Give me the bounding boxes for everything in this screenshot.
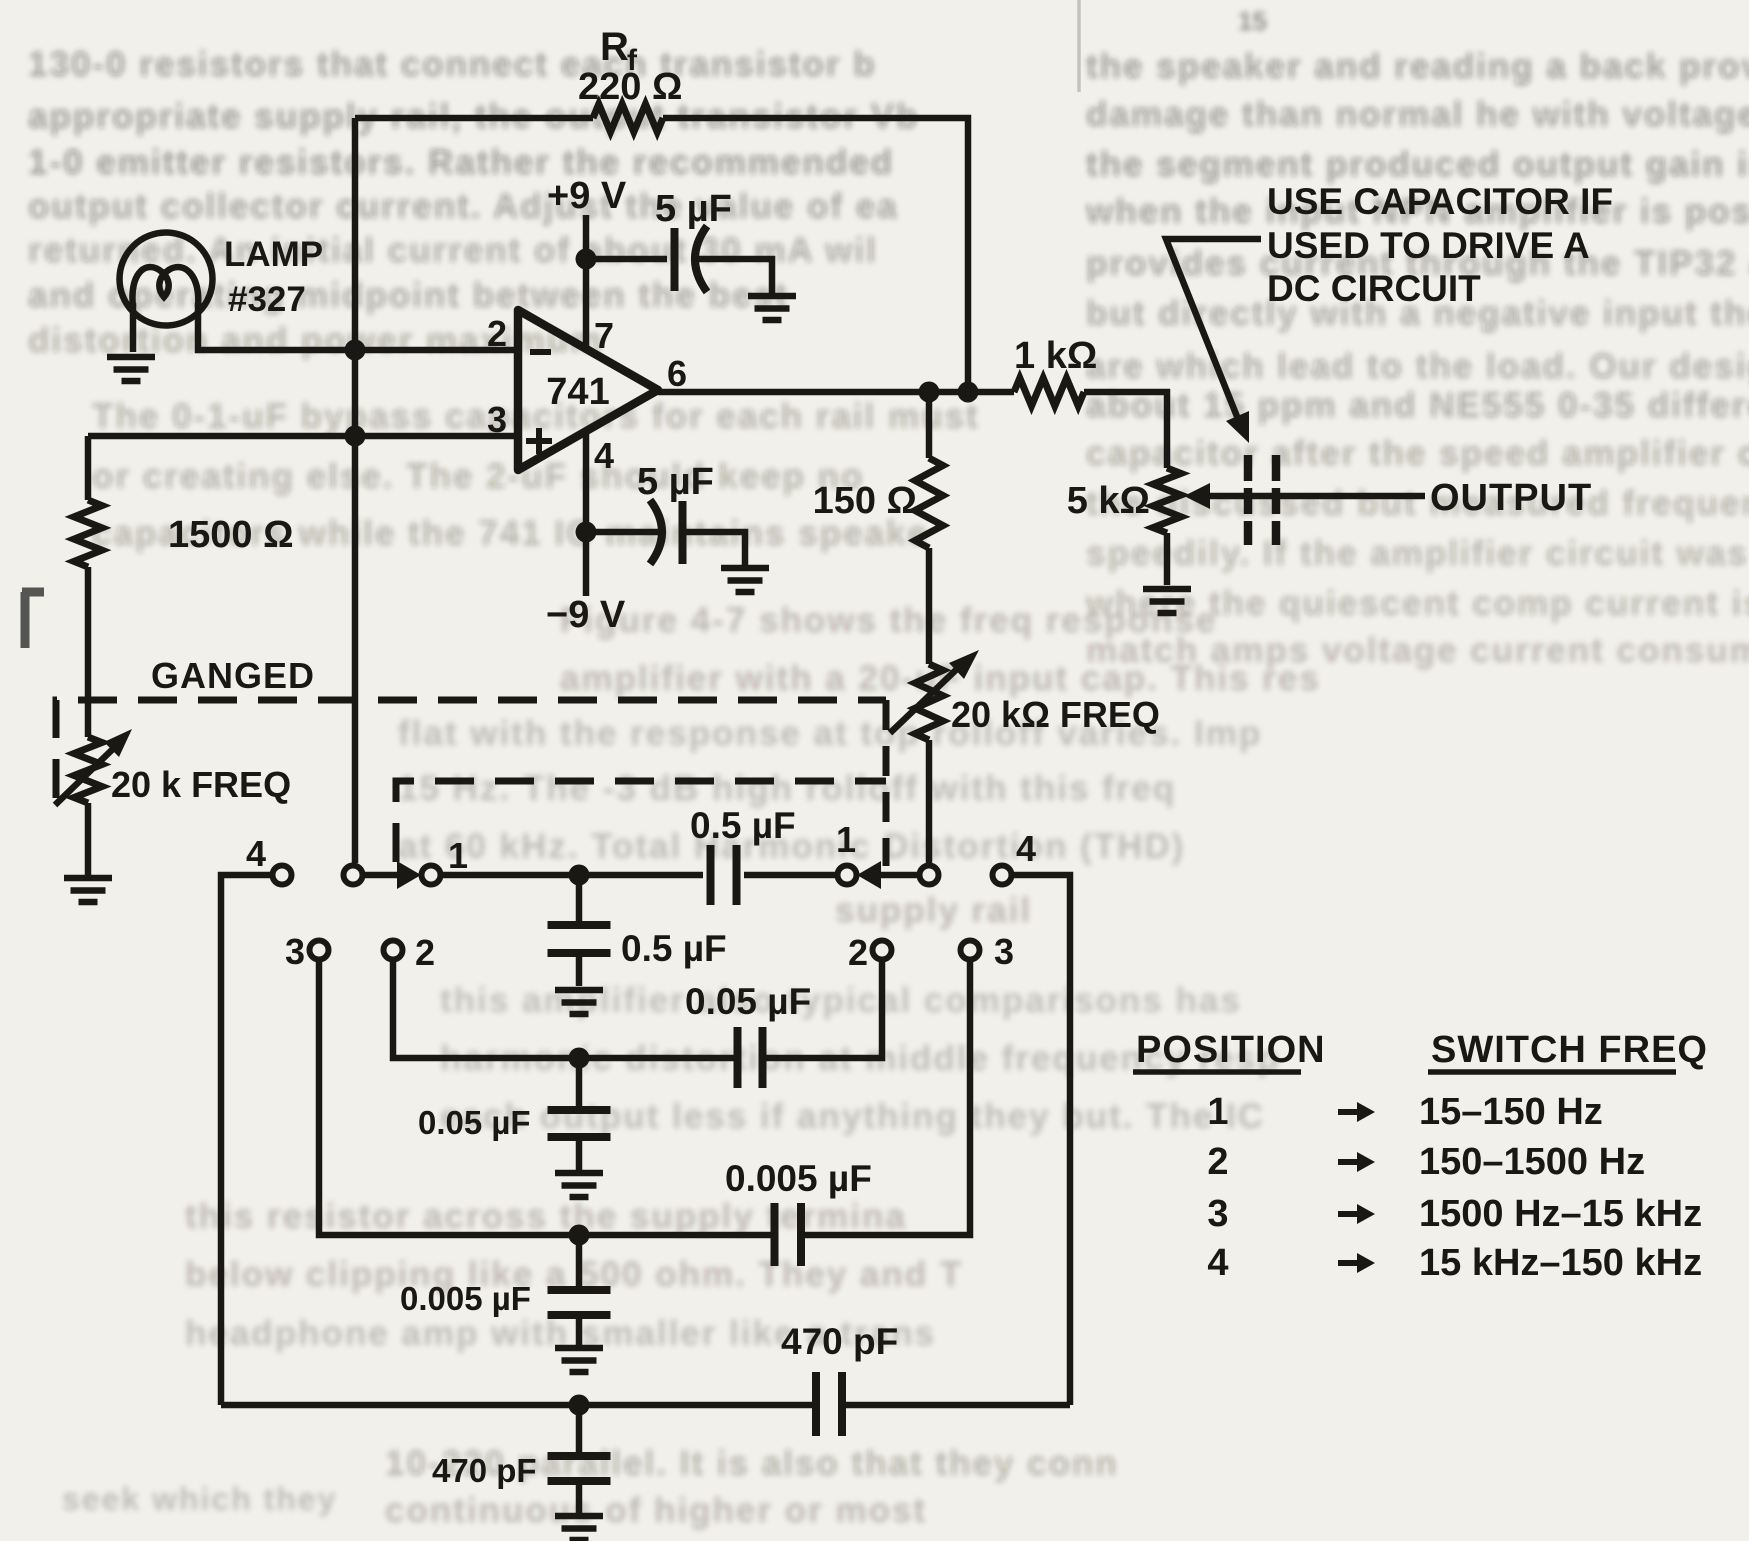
wire: left pot bottom to ground — [85, 803, 92, 875]
table header underline (POSITION) — [1133, 1069, 1301, 1075]
wire: row3 shunt cap bottom lead — [576, 1315, 583, 1345]
svg-text:4: 4 — [594, 435, 614, 476]
svg-text:0.005 µF: 0.005 µF — [725, 1158, 872, 1199]
svg-text:1: 1 — [448, 835, 468, 876]
switch contact circle (S1b wiper pivot) — [920, 866, 939, 885]
table arrow (row 1) — [1338, 1109, 1362, 1115]
junction node (node D: output / feedback) — [958, 382, 979, 403]
svg-text:7: 7 — [594, 315, 614, 356]
capacitor C 5 uF (+9 V bypass) straight plate — [671, 228, 679, 291]
capacitor plates C 0.05 uF (series, row 2) — [738, 1027, 763, 1088]
wire: -9V bypass cap left lead — [586, 529, 664, 536]
junction node (node C: output / 150 ohm branch) — [919, 382, 940, 403]
svg-text:OUTPUT: OUTPUT — [1430, 477, 1592, 519]
arrowhead (5k pot wiper arrowhead) — [1184, 483, 1210, 509]
wire: S1b contact 4 wire to right outer bus — [1012, 875, 1070, 1405]
wire: +9V bypass cap right lead to ground — [692, 259, 772, 293]
potentiometer wiper arrow shaft (right 20 k FREQ) — [890, 668, 958, 733]
junction node (node A: lamp / feedback / pin 2) — [345, 340, 366, 361]
switch contact circle (S1b contact 2) — [873, 941, 892, 960]
ground (below 0.005 uF shunt cap) — [555, 1348, 603, 1372]
svg-text:1500 Hz–15 kHz: 1500 Hz–15 kHz — [1419, 1193, 1702, 1235]
wire: pin 4 supply wire to -9 V — [583, 431, 590, 596]
switch contact circle (S1a contact 2) — [384, 941, 403, 960]
capacitor plates C 0.05 uF (shunt) — [548, 1110, 611, 1137]
svg-text:15: 15 — [1238, 6, 1267, 36]
svg-text:6: 6 — [667, 353, 687, 394]
op-amp U1 741 triangle — [518, 310, 658, 470]
svg-text:150 Ω: 150 Ω — [813, 480, 917, 522]
wire: pin 7 supply wire from +9 V — [583, 215, 590, 348]
svg-text:0.5 µF: 0.5 µF — [621, 928, 727, 969]
table header underline (SWITCH FREQ) — [1428, 1069, 1676, 1075]
svg-text:LAMP: LAMP — [224, 235, 323, 274]
junction node (node G (row 3)) — [569, 1225, 590, 1246]
capacitor plates C 0.5 uF (shunt) — [548, 925, 611, 953]
svg-text:USE CAPACITOR IF: USE CAPACITOR IF — [1267, 181, 1613, 222]
wire: bottom bus row 4 right — [846, 1402, 1070, 1409]
svg-text:1-0 emitter resistors. Rather: 1-0 emitter resistors. Rather the recomm… — [28, 143, 894, 182]
table arrow (row 4) — [1338, 1260, 1362, 1266]
wire: lamp left lead to ground — [130, 303, 137, 352]
wire: row1 wire contact1L to node — [440, 872, 703, 879]
svg-text:DC CIRCUIT: DC CIRCUIT — [1267, 268, 1481, 309]
lamp #327 bulb circle — [120, 233, 213, 326]
svg-text:3: 3 — [487, 399, 507, 440]
svg-text:5 kΩ: 5 kΩ — [1067, 480, 1150, 522]
svg-text:each output less if anything t: each output less if anything they but. T… — [440, 1097, 1265, 1136]
svg-text:3: 3 — [285, 931, 305, 972]
ground (below -9 V bypass cap) — [721, 568, 769, 592]
svg-text:470 pF: 470 pF — [781, 1321, 898, 1362]
svg-text:output collector current. Adju: output collector current. Adjust the val… — [28, 187, 899, 226]
svg-text:0.05 µF: 0.05 µF — [685, 981, 811, 1022]
ground (below 470 pF shunt cap) — [555, 1516, 603, 1540]
capacitor plates C 0.5 uF (series, row 1) — [711, 845, 737, 905]
capacitor (optional DC-blocking, dashed) right plate — [1272, 455, 1281, 545]
svg-text:0.005 µF: 0.005 µF — [400, 1280, 531, 1317]
wire: right pot bottom to right switch wiper — [926, 740, 933, 863]
wire: S1a contact 4 wire to left outer bus — [221, 875, 272, 1405]
svg-text:match amps voltage current con: match amps voltage current consume used … — [1086, 631, 1749, 670]
svg-text:about 15 ppm and NE555 0-35 di: about 15 ppm and NE555 0-35 differential… — [1086, 386, 1749, 425]
switch contact circle (S1a contact 3) — [310, 941, 329, 960]
wire: feedback top run from node A to Rf — [355, 115, 593, 122]
svg-text:3: 3 — [994, 931, 1014, 972]
svg-text:supply rail: supply rail — [835, 891, 1032, 930]
svg-text:the segment produced output ga: the segment produced output gain in the … — [1086, 145, 1749, 184]
svg-text:capacitor after the speed ampl: capacitor after the speed amplifier coil… — [1086, 434, 1749, 473]
wire: row3 shunt cap top lead — [576, 1235, 583, 1286]
ground (below left 20 k FREQ pot) — [64, 878, 112, 902]
svg-text:20 k FREQ: 20 k FREQ — [111, 764, 291, 805]
wire: +9V bypass cap left lead — [586, 256, 667, 263]
junction node (node E (row 1)) — [569, 865, 590, 886]
svg-text:1: 1 — [836, 819, 856, 860]
resistor body potentiometer 20 k FREQ (left) — [74, 737, 102, 803]
resistor body R 1500 ohm — [74, 500, 102, 567]
switch contact circle (S1a wiper pivot) — [344, 866, 363, 885]
wire: pin 3 input wire from 1500 ohm bus to op-amp — [88, 433, 516, 440]
arrowhead (left pot wiper arrowhead) — [104, 729, 132, 757]
wire: 5k pot bottom to ground — [1164, 533, 1171, 585]
svg-text:R: R — [600, 25, 629, 69]
wire: bottom bus row 4 — [221, 1402, 812, 1409]
wire: left bus down to 1500 ohm resistor — [85, 436, 92, 500]
wire: pin 6 output wire — [658, 389, 1014, 396]
svg-text:speedily. If the amplifier cir: speedily. If the amplifier circuit was d… — [1086, 534, 1749, 573]
wire: S1a wiper stub — [363, 872, 398, 879]
arrowhead (S1b wiper arrowhead) — [857, 861, 881, 889]
svg-text:741: 741 — [546, 371, 609, 413]
svg-text:1 kΩ: 1 kΩ — [1014, 335, 1097, 377]
capacitor (optional DC-blocking, dashed) left plate — [1244, 455, 1253, 545]
wire: row2 shunt cap bottom lead — [576, 1137, 583, 1170]
capacitor C 5 uF (-9 V bypass) straight plate — [679, 501, 687, 564]
junction node (node on +9 V wire) — [576, 249, 597, 270]
svg-text:1500 Ω: 1500 Ω — [168, 514, 294, 556]
switch contact circle (S1a contact 4) — [273, 866, 292, 885]
capacitor plates C 470 pF (shunt) — [548, 1456, 611, 1481]
wire: lamp right lead down to inverting-input wire — [198, 303, 355, 350]
svg-text:The 0-1-uF bypass capacitors f: The 0-1-uF bypass capacitors for each ra… — [92, 397, 980, 436]
wire: row4 shunt cap top lead — [576, 1405, 583, 1452]
svg-text:damage than normal he with vol: damage than normal he with voltage when … — [1086, 95, 1749, 134]
svg-text:20 kΩ FREQ: 20 kΩ FREQ — [951, 694, 1160, 735]
wire: annotation leader line — [1166, 239, 1261, 424]
wire: row4 shunt cap bottom lead — [576, 1481, 583, 1513]
wire: row1 wire cap to contact1R — [744, 872, 838, 879]
wire: S1a contact 3 drop — [319, 960, 771, 1235]
svg-text:5 µF: 5 µF — [655, 188, 732, 230]
svg-text:470 pF: 470 pF — [432, 1452, 537, 1489]
lamp #327 filament loop — [132, 267, 198, 307]
svg-text:130-0 resistors that connect e: 130-0 resistors that connect each transi… — [28, 45, 877, 84]
svg-text:220 Ω: 220 Ω — [578, 66, 682, 108]
table arrow (row 2) — [1338, 1159, 1362, 1165]
svg-text:15 Hz. The -3 dB high rolloff: 15 Hz. The -3 dB high rolloff with this … — [398, 769, 1176, 808]
svg-text:−9 V: −9 V — [546, 594, 626, 636]
switch contact circle (S1a contact 1) — [422, 866, 441, 885]
wire: output wire to 5k pot corner — [1084, 392, 1167, 468]
arrowhead (S1a wiper arrowhead) — [397, 861, 421, 889]
svg-text:4: 4 — [246, 833, 266, 874]
ground (below +9 V bypass cap) — [748, 296, 796, 320]
wire: 150 ohm branch top lead — [926, 392, 933, 458]
wire: wiper wire to OUTPUT — [1208, 493, 1425, 500]
capacitor plates C 470 pF (series, row 4) — [816, 1372, 842, 1436]
svg-text:2: 2 — [848, 932, 868, 973]
switch contact circle (S1b contact 4) — [993, 866, 1012, 885]
ground (below 0.05 uF shunt cap) — [555, 1173, 603, 1197]
wire: S1b wiper stub — [881, 872, 919, 879]
ganged link dashed line (switch wipers) — [396, 781, 886, 862]
wire: S1b contact 3 drop — [805, 960, 970, 1235]
svg-text:5 µF: 5 µF — [637, 461, 714, 503]
wire: row1 shunt cap top lead — [576, 875, 583, 921]
switch contact circle (S1b contact 1) — [838, 866, 857, 885]
potentiometer wiper arrow shaft (left 20 k FREQ) — [55, 745, 117, 805]
resistor body potentiometer 5 k ohm — [1153, 468, 1181, 533]
svg-text:SWITCH FREQ: SWITCH FREQ — [1431, 1029, 1708, 1071]
svg-text:continuous of higher or most: continuous of higher or most — [385, 1491, 927, 1530]
wire: row2 shunt cap top lead — [576, 1058, 583, 1106]
junction node (node on -9 V wire) — [576, 522, 597, 543]
table arrow (row 3) — [1338, 1211, 1362, 1217]
arrowhead (right pot wiper arrowhead) — [949, 650, 979, 679]
svg-text:1: 1 — [1207, 1091, 1228, 1133]
svg-text:#327: #327 — [228, 280, 306, 319]
resistor body Rf 220 ohm — [593, 104, 663, 132]
resistor body potentiometer 20 k ohm FREQ (right) — [915, 664, 943, 740]
svg-text:15–150 Hz: 15–150 Hz — [1419, 1091, 1603, 1133]
svg-text:0.05 µF: 0.05 µF — [418, 1104, 531, 1141]
ground (below 5 k pot) — [1143, 589, 1191, 613]
svg-text:are which lead to the load. Ou: are which lead to the load. Our design t… — [1086, 347, 1749, 386]
switch contact circle (S1b contact 3) — [961, 941, 980, 960]
svg-text:POSITION: POSITION — [1136, 1029, 1326, 1071]
svg-text:2: 2 — [415, 932, 435, 973]
wire: S1b contact 2 drop — [766, 960, 882, 1058]
svg-text:2: 2 — [487, 313, 507, 354]
wire: feedback top run from Rf to right corner, down to output node — [663, 118, 968, 382]
wire: -9V bypass cap right lead to ground — [682, 532, 745, 565]
svg-text:USED TO DRIVE A: USED TO DRIVE A — [1267, 225, 1590, 266]
junction node (node H (row 4)) — [569, 1395, 590, 1416]
resistor body R 1 k ohm — [1014, 378, 1084, 406]
op-amp U1 inverting input minus sign — [530, 349, 551, 355]
capacitor C 5 uF (-9 V bypass) curved plate — [650, 500, 662, 564]
ground (below lamp) — [107, 357, 155, 381]
wire: S1a contact 2 drop — [393, 960, 734, 1058]
junction node (node B: pin 3 / switch bus) — [345, 426, 366, 447]
svg-text:3: 3 — [1207, 1193, 1228, 1235]
wire: segment 150 ohm to right pot — [926, 548, 933, 664]
wire: pin 2 input wire into op-amp — [355, 347, 516, 354]
junction node (node F (row 2)) — [569, 1048, 590, 1069]
wire: row1 shunt cap bottom lead — [576, 953, 583, 986]
ground (below 0.5 uF shunt cap) — [555, 990, 603, 1014]
svg-text:4: 4 — [1207, 1242, 1228, 1284]
svg-text:2: 2 — [1207, 1141, 1228, 1183]
arrowhead (annotation leader arrowhead) — [1226, 411, 1249, 443]
svg-text:15 kHz–150 kHz: 15 kHz–150 kHz — [1419, 1242, 1702, 1284]
capacitor plates C 0.005 uF (shunt) — [548, 1290, 611, 1315]
svg-text:150–1500 Hz: 150–1500 Hz — [1419, 1141, 1645, 1183]
svg-text:4: 4 — [1016, 828, 1036, 869]
capacitor plates C 0.005 uF (series, row 3) — [775, 1203, 802, 1266]
svg-text:+9 V: +9 V — [547, 175, 627, 217]
ganged link dashed line (pots) — [56, 700, 886, 798]
svg-text:the speaker and reading a back: the speaker and reading a back provides … — [1086, 47, 1749, 86]
resistor body R 150 ohm — [915, 458, 943, 548]
ganged link dashed line (right drop to switch wiper) — [883, 700, 890, 866]
svg-text:GANGED: GANGED — [151, 655, 315, 696]
capacitor C 5 uF (+9 V bypass) curved plate — [695, 226, 707, 292]
op-amp U1 non-inverting input plus sign — [526, 428, 552, 454]
wire: segment 1500 ohm to left pot — [85, 567, 92, 737]
svg-text:0.5 µF: 0.5 µF — [690, 805, 796, 846]
wire: left vertical bus (pin 2 node down to left switch wiper) — [352, 118, 359, 863]
svg-text:or creating else. The 2-uF sho: or creating else. The 2-uF should keep n… — [92, 457, 864, 496]
svg-text:seek which they: seek which they — [62, 1481, 337, 1517]
